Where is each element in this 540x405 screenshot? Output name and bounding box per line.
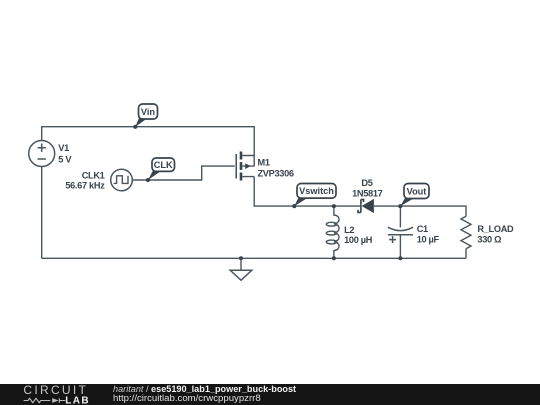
svg-text:CLK1: CLK1 xyxy=(82,170,105,180)
wire CLK output xyxy=(132,166,235,180)
wire bottom ground rail xyxy=(42,257,466,259)
svg-text:5 V: 5 V xyxy=(58,154,72,164)
label C1 value xyxy=(417,224,440,245)
node flag Vout xyxy=(398,184,429,209)
svg-text:LAB: LAB xyxy=(65,396,90,405)
voltage source V1 xyxy=(29,141,55,167)
label R_LOAD value xyxy=(477,224,514,245)
inductor L2 xyxy=(326,206,339,258)
svg-text:L2: L2 xyxy=(344,225,354,235)
wire V1 bottom to ground rail xyxy=(41,166,43,258)
node flag Vin xyxy=(133,104,157,129)
svg-text:Vout: Vout xyxy=(407,186,427,196)
wire diode to Vout node xyxy=(374,206,466,216)
transistor M1 PMOS xyxy=(236,152,255,181)
node dot C1 bottom xyxy=(398,256,402,260)
svg-text:R_LOAD: R_LOAD xyxy=(477,224,514,234)
svg-text:C1: C1 xyxy=(417,224,428,234)
node flag CLK xyxy=(146,158,175,182)
svg-text:56.67 kHz: 56.67 kHz xyxy=(65,181,105,191)
wire Vin rail xyxy=(42,127,255,167)
svg-text:CLK: CLK xyxy=(154,160,173,170)
wire Vswitch rail xyxy=(254,177,360,207)
svg-text:M1: M1 xyxy=(258,157,270,167)
node dot L2 bottom xyxy=(332,256,336,260)
node flag Vswitch xyxy=(292,184,336,209)
resistor R_LOAD xyxy=(461,216,471,248)
svg-text:330 Ω: 330 Ω xyxy=(477,235,501,245)
diode D5 schottky xyxy=(358,199,374,213)
svg-text:ZVP3306: ZVP3306 xyxy=(258,168,294,178)
svg-text:10 µF: 10 µF xyxy=(417,235,440,245)
ground xyxy=(230,256,252,280)
label M1 value xyxy=(258,157,294,178)
label L2 value xyxy=(344,225,373,245)
svg-text:1N5817: 1N5817 xyxy=(352,189,383,199)
label D5 value xyxy=(352,178,383,199)
svg-text:Vswitch: Vswitch xyxy=(299,186,334,196)
wire C1 stubs xyxy=(399,206,401,227)
clock source CLK1 xyxy=(111,169,133,191)
footer bar xyxy=(0,384,540,405)
svg-text:D5: D5 xyxy=(361,178,372,188)
CircuitLab logo xyxy=(18,383,98,405)
capacitor C1 polarized xyxy=(388,227,413,243)
svg-text:100 µH: 100 µH xyxy=(344,235,373,245)
node dot L2 top xyxy=(332,204,336,208)
wire R_LOAD bottom xyxy=(465,249,467,259)
svg-text:V1: V1 xyxy=(58,143,69,153)
footer text xyxy=(113,384,296,394)
label CLK1 value xyxy=(65,170,105,190)
svg-text:Vin: Vin xyxy=(141,107,156,117)
label V1 value xyxy=(58,143,72,164)
